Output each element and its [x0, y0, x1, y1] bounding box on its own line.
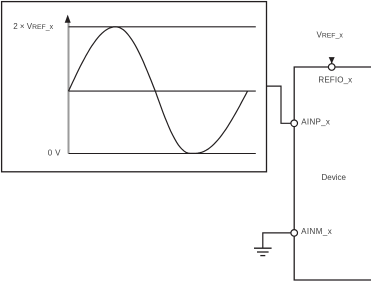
waveform outer box: [2, 2, 267, 172]
pin AINM_x: [291, 230, 298, 237]
VREF_x input arrow: [329, 57, 335, 64]
label 2 x VREF_x: [13, 22, 53, 31]
y-axis arrowhead: [65, 15, 71, 23]
wire AINM_x to ground: [263, 233, 291, 248]
label VREF_x: [317, 30, 344, 39]
svg-text:Device: Device: [322, 173, 347, 182]
label 0 V: [48, 149, 61, 158]
label AINM_x: [301, 227, 332, 236]
level line 2xVREF: [69, 26, 256, 28]
svg-text:0 V: 0 V: [48, 149, 61, 158]
svg-text:AINM_x: AINM_x: [301, 227, 332, 236]
svg-text:2 × VREF_x: 2 × VREF_x: [13, 22, 53, 31]
svg-text:AINP_x: AINP_x: [301, 117, 330, 126]
Device box (left, top, bottom edges; right edge off-image): [294, 67, 371, 280]
label REFIO_x: [318, 76, 352, 85]
label Device: [322, 173, 347, 182]
pin AINP_x: [291, 120, 298, 127]
level line mid-scale VREF: [69, 90, 256, 92]
pin REFIO_x: [328, 64, 335, 71]
y-axis (voltage axis, grey): [68, 21, 70, 154]
label AINP_x: [301, 117, 330, 126]
svg-text:REFIO_x: REFIO_x: [318, 76, 352, 85]
wire waveform box to AINP_x: [267, 86, 292, 123]
level line 0V: [69, 153, 256, 155]
ground symbol: [254, 248, 272, 255]
svg-text:VREF_x: VREF_x: [317, 30, 344, 39]
sine wave input signal: [69, 27, 248, 154]
